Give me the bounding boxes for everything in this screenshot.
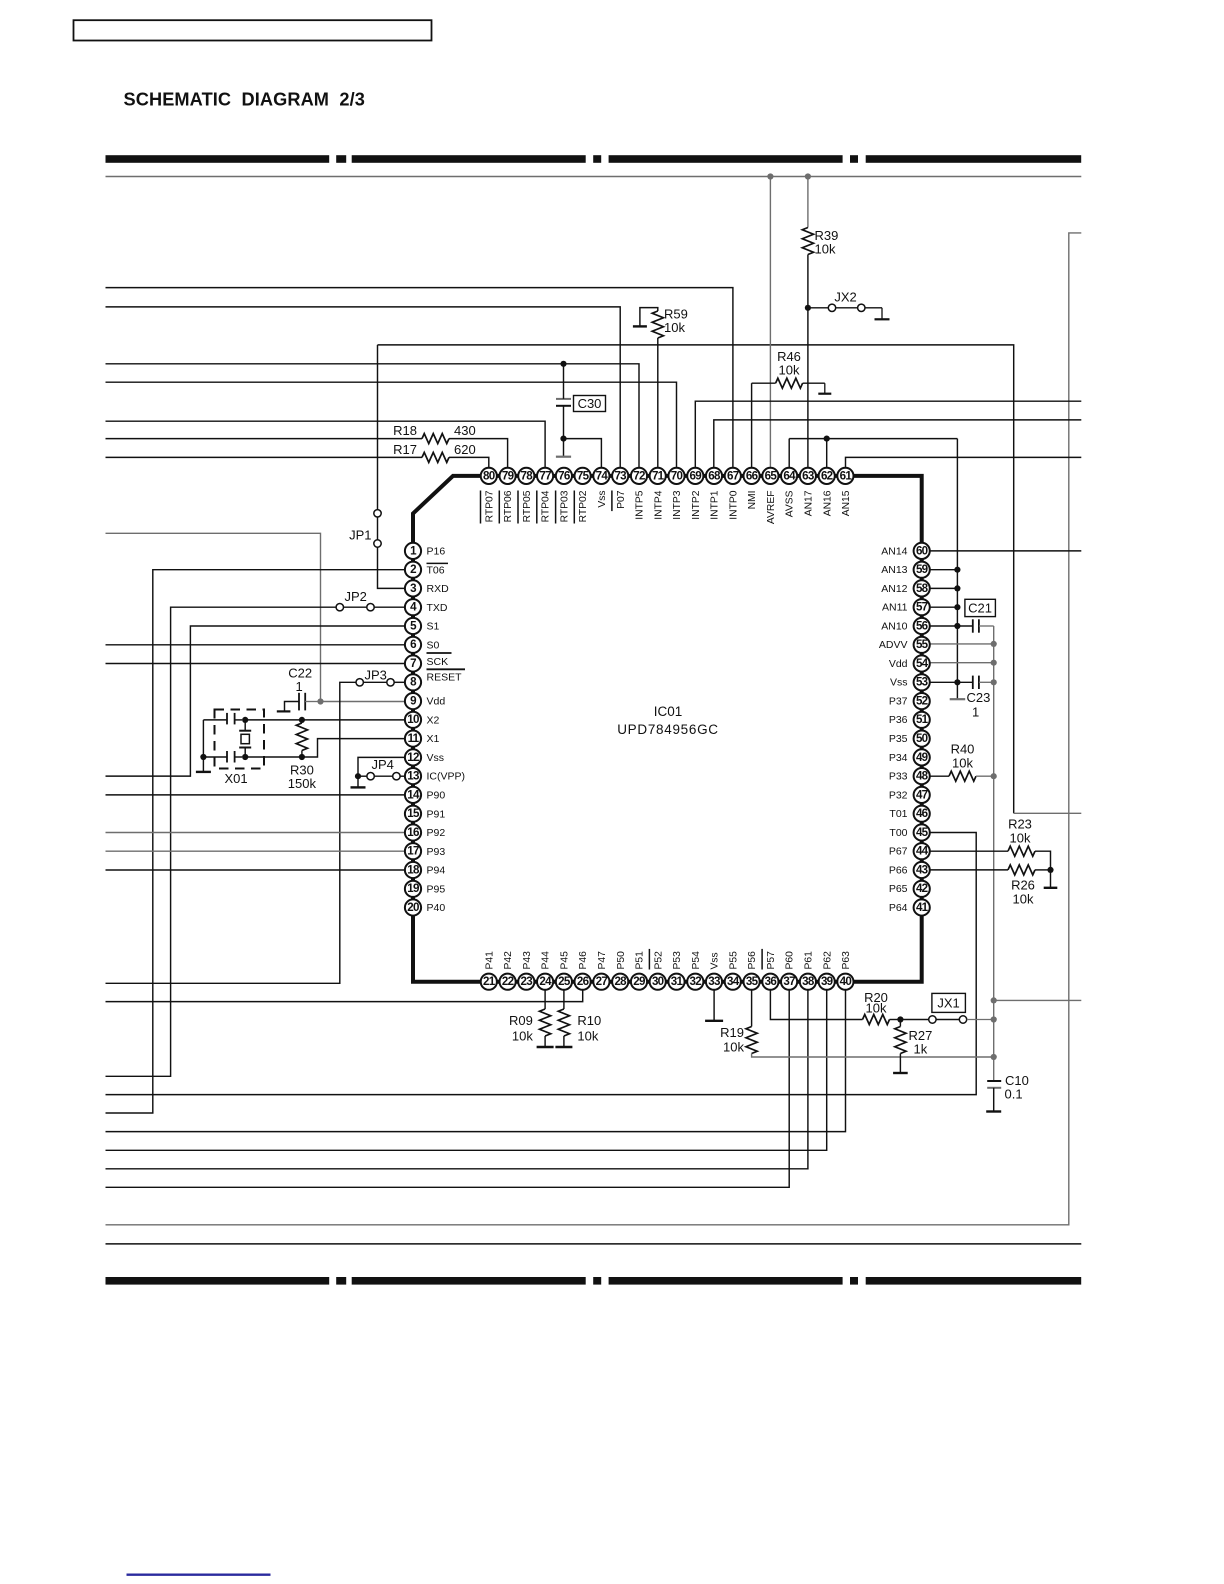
junction: AN16 tap on AVSS net	[824, 436, 830, 442]
svg-text:UPD784956GC: UPD784956GC	[617, 722, 719, 737]
pin 45 T00	[889, 824, 929, 840]
svg-text:47: 47	[916, 788, 928, 801]
junction: C30 bottom / Vss net	[560, 436, 566, 442]
svg-text:26: 26	[577, 975, 590, 988]
svg-text:10k: 10k	[779, 363, 800, 378]
junction: R40 on gray column	[991, 773, 997, 779]
svg-text:12: 12	[407, 751, 419, 764]
wire: R20 right lead	[890, 1019, 901, 1021]
pin 14 P90	[405, 787, 445, 803]
wire: P57 pin 36 lead to R20	[770, 991, 862, 1020]
ground bar for R59	[633, 325, 647, 327]
pin 58 AN12	[881, 580, 930, 596]
svg-text:P53: P53	[672, 951, 683, 970]
pin 65 AVREF	[762, 468, 778, 524]
wire: JP1 to pin 3 RXD	[378, 547, 405, 588]
svg-text:70: 70	[671, 469, 683, 482]
pin 49 P34	[889, 749, 930, 765]
svg-text:1: 1	[296, 679, 303, 694]
terminator bar for R09	[537, 1046, 554, 1048]
jumper JP2	[336, 604, 343, 611]
svg-text:T00: T00	[889, 827, 907, 839]
wire: R46 right lead to ground	[803, 382, 825, 384]
junction: AN13 on AVSS column	[954, 567, 960, 573]
svg-text:IC01: IC01	[654, 704, 683, 719]
svg-text:INTP0: INTP0	[728, 490, 739, 519]
pin 66 NMI	[744, 468, 760, 510]
crystal X01 dashed enclosure	[215, 710, 265, 769]
ground bar for R27	[893, 1072, 908, 1074]
svg-text:34: 34	[727, 975, 740, 988]
svg-text:79: 79	[502, 469, 515, 482]
wire: RTP04 net from left edge to pin 77	[106, 421, 546, 467]
wire: pin 24 lead to R09	[544, 991, 546, 1010]
svg-text:13: 13	[407, 770, 420, 783]
svg-text:RESET: RESET	[427, 672, 463, 684]
svg-text:P35: P35	[889, 733, 908, 745]
svg-text:10k: 10k	[1013, 892, 1034, 907]
pin 3 RXD	[405, 580, 449, 596]
pin 25 P45	[556, 951, 572, 990]
jumper JP4	[358, 775, 367, 777]
pin 21 P41	[481, 951, 497, 990]
svg-text:Vss: Vss	[427, 752, 445, 764]
svg-text:INTP5: INTP5	[635, 490, 646, 519]
svg-text:42: 42	[916, 882, 928, 895]
svg-text:68: 68	[708, 469, 721, 482]
svg-text:P37: P37	[889, 696, 908, 708]
ground stub below JP4 node	[357, 776, 359, 787]
wire: JP1 net from RXD riser top rail y=344.9 to right bus riser	[378, 345, 1014, 813]
svg-text:10k: 10k	[664, 320, 685, 335]
pin 16 P92	[405, 824, 445, 840]
svg-text:AN11: AN11	[882, 602, 908, 614]
pin 55 ADVV	[879, 637, 930, 653]
crystal element of X01	[244, 720, 246, 731]
wire: S1 net pin 5 loop to left edge	[106, 626, 405, 776]
svg-text:28: 28	[614, 975, 627, 988]
ground for R46	[824, 383, 826, 394]
svg-text:X1: X1	[427, 733, 440, 745]
svg-text:11: 11	[408, 732, 420, 745]
svg-text:S0: S0	[427, 639, 440, 651]
junction: Vss on AVSS column	[954, 679, 960, 685]
pin 57 AN11	[882, 599, 930, 615]
wire: C22 left lead to ground	[285, 702, 300, 711]
resistor R30	[301, 720, 303, 723]
pin 78 RTP05	[518, 468, 534, 524]
pin 30 P52	[649, 949, 665, 990]
svg-text:10k: 10k	[512, 1029, 533, 1044]
wire: AVREF gray riser from top rail to pin 65	[769, 177, 771, 468]
svg-text:R18: R18	[393, 423, 417, 438]
pin 50 P35	[889, 731, 930, 747]
wire: JP2 to pin 4 TXD	[374, 606, 404, 608]
svg-text:23: 23	[521, 975, 534, 988]
svg-text:P67: P67	[889, 846, 908, 858]
svg-text:P64: P64	[889, 902, 908, 914]
pin 34 P55	[725, 951, 741, 990]
ground stub below X01 left rail	[202, 757, 204, 771]
svg-text:P54: P54	[691, 951, 702, 970]
svg-text:P61: P61	[804, 951, 815, 970]
svg-text:P62: P62	[822, 951, 833, 970]
ground stub below R27	[899, 1054, 901, 1073]
svg-text:24: 24	[539, 975, 552, 988]
svg-text:P94: P94	[427, 865, 446, 877]
ground bar for X01	[196, 771, 211, 773]
wire: S0 net from left edge to pin 6	[106, 644, 405, 646]
svg-text:P66: P66	[889, 864, 908, 876]
pin 72 INTP5	[631, 468, 647, 520]
svg-text:1: 1	[972, 705, 979, 720]
svg-text:NMI: NMI	[747, 491, 758, 510]
pin 68 INTP1	[706, 468, 722, 520]
pin 51 P36	[889, 712, 930, 728]
wire: R18 to pin 79	[449, 439, 508, 468]
svg-text:21: 21	[483, 975, 496, 988]
svg-text:39: 39	[821, 975, 834, 988]
pin 40 P63	[837, 951, 853, 990]
wire: P46 net from left edge up to pin 26	[106, 991, 583, 1002]
svg-text:R10: R10	[577, 1013, 601, 1028]
wire: T00 net long loop from left edge to pin 45	[106, 833, 977, 1095]
wire: pin 35 lead to R19	[751, 991, 753, 1027]
junction: C30 top on INTP5 net	[560, 361, 566, 367]
svg-text:P95: P95	[427, 883, 446, 895]
resistor R23	[1008, 846, 1035, 856]
svg-text:RXD: RXD	[427, 583, 450, 595]
wire: P63 net from left edge up to pin 40	[106, 991, 846, 1132]
wire: crystal bottom to R30 bottom	[245, 756, 302, 758]
wire: INTP2 net pin 69 up and right to edge	[695, 401, 1081, 467]
pin 9 Vdd	[405, 693, 445, 709]
svg-text:76: 76	[558, 469, 571, 482]
pin 42 P65	[889, 881, 930, 897]
svg-text:71: 71	[652, 469, 665, 482]
svg-text:Vss: Vss	[890, 677, 908, 689]
wire: Vdd node to pin 9	[321, 701, 405, 703]
pin 64 AVSS	[781, 468, 797, 517]
svg-text:55: 55	[916, 638, 929, 651]
stub below R09	[544, 1036, 546, 1046]
wire: X2 net from crystal top to pin 10	[245, 719, 404, 721]
capacitor C30 lower plate	[556, 405, 571, 407]
resistor R26	[1008, 865, 1035, 875]
resistor R20	[863, 1015, 890, 1025]
ground stub below C30 node	[563, 439, 565, 457]
svg-text:T06: T06	[427, 564, 445, 576]
pin 71 INTP4	[650, 468, 666, 520]
wire: C22 right lead	[305, 701, 318, 703]
svg-text:JP1: JP1	[349, 528, 371, 543]
junction: R30 bottom node	[299, 754, 305, 760]
svg-text:10k: 10k	[723, 1040, 744, 1055]
svg-text:64: 64	[783, 469, 796, 482]
capacitor (upper) inside X01	[226, 713, 228, 725]
wire: R46 left lead	[752, 382, 776, 384]
svg-text:R40: R40	[951, 742, 975, 757]
svg-text:430: 430	[454, 423, 476, 438]
svg-text:P36: P36	[889, 714, 908, 726]
svg-text:33: 33	[708, 975, 721, 988]
svg-text:19: 19	[407, 882, 420, 895]
wire: top horizontal gray rail	[106, 176, 1082, 178]
pin 17 P93	[405, 843, 445, 859]
svg-text:16: 16	[407, 826, 420, 839]
wire: P62 net from left edge up to pin 39	[106, 991, 827, 1151]
pin 6 S0	[405, 637, 440, 653]
wire: P33 pin 48 lead to R40	[931, 775, 950, 777]
pin 38 P61	[800, 951, 816, 990]
pin 7 SCK	[405, 653, 452, 672]
svg-text:P65: P65	[889, 883, 908, 895]
svg-text:25: 25	[558, 975, 571, 988]
pin 52 P37	[889, 693, 930, 709]
pin 22 P42	[500, 951, 516, 990]
svg-text:T01: T01	[889, 808, 907, 820]
wire: INTP0 net from left edge to pin 67	[106, 288, 733, 468]
wire: RESET/JP3 left branch to left edge	[106, 682, 357, 983]
wire: X1 rail through lower cap	[203, 756, 227, 758]
svg-text:37: 37	[783, 975, 795, 988]
svg-text:18: 18	[407, 863, 420, 876]
svg-text:53: 53	[916, 676, 929, 689]
svg-text:P63: P63	[841, 951, 852, 970]
pin 28 P50	[612, 951, 628, 990]
capacitor C21 plates	[972, 619, 974, 632]
svg-text:10k: 10k	[815, 242, 836, 257]
svg-text:P51: P51	[635, 951, 646, 970]
wire: long gray net along bottom to right bus riser	[106, 233, 1082, 1225]
svg-text:C23: C23	[967, 690, 991, 705]
wire: C30 bottom lead to Vss node	[563, 406, 565, 439]
pin 11 X1	[405, 731, 440, 747]
terminator bar for C10	[986, 1110, 1001, 1112]
svg-text:59: 59	[916, 563, 929, 576]
svg-text:62: 62	[821, 469, 833, 482]
wire: P67 pin 44 lead to R23	[931, 850, 1009, 852]
svg-text:JX2: JX2	[834, 290, 856, 305]
svg-text:P56: P56	[747, 951, 758, 970]
svg-text:80: 80	[483, 469, 495, 482]
svg-text:35: 35	[746, 975, 759, 988]
junction: AN12 on AVSS column	[954, 585, 960, 591]
svg-text:R09: R09	[509, 1013, 533, 1028]
svg-text:45: 45	[916, 826, 929, 839]
svg-text:JX1: JX1	[937, 996, 959, 1011]
svg-text:P43: P43	[522, 951, 533, 970]
pin 54 Vdd	[889, 655, 930, 671]
svg-text:40: 40	[840, 975, 852, 988]
svg-text:38: 38	[802, 975, 815, 988]
wire: P92 net from left edge to pin 16	[106, 832, 405, 834]
svg-text:Vdd: Vdd	[889, 658, 908, 670]
resistor R19	[746, 1027, 757, 1054]
junction: crystal top node	[242, 717, 248, 723]
wire: SCK net from left edge to pin 7	[106, 663, 405, 665]
wire: R39 bottom to pin 63 AN17	[807, 255, 809, 468]
wire: Vss pin 12 to ground node	[358, 757, 405, 776]
svg-text:AN13: AN13	[881, 564, 907, 576]
wire: ADVV pin 55 to gray column	[931, 643, 994, 645]
pin 67 INTP0	[725, 468, 741, 520]
svg-text:77: 77	[539, 469, 551, 482]
svg-text:78: 78	[521, 469, 534, 482]
stub below R10	[563, 1036, 565, 1046]
wire: AVSS net pin 64 riser	[788, 439, 790, 468]
svg-text:P40: P40	[427, 902, 446, 914]
wire: AN11 pin 57 to AVSS column	[931, 606, 958, 608]
svg-text:P33: P33	[889, 771, 908, 783]
svg-text:P57: P57	[766, 951, 777, 970]
pin 75 RTP02	[574, 468, 590, 524]
wire: R59 top bend to ground	[640, 308, 658, 326]
svg-text:43: 43	[916, 863, 929, 876]
svg-text:17: 17	[407, 845, 419, 858]
svg-text:56: 56	[916, 619, 929, 632]
stub below C10	[993, 1088, 995, 1111]
resistor R46	[776, 378, 803, 388]
junction on gray rail to R39	[805, 173, 811, 179]
ground bar for pin 33	[705, 1020, 723, 1022]
svg-text:AVREF: AVREF	[766, 491, 777, 525]
wire: pin 25 lead to R10	[563, 991, 565, 1010]
wire: T06 net pin 2 loop to left edge	[106, 570, 405, 1113]
capacitor C30 upper plate	[556, 398, 571, 400]
svg-text:R26: R26	[1011, 878, 1035, 893]
wire: AVSS net horizontal	[789, 438, 957, 440]
wire: gray net row to right edge	[994, 999, 1082, 1001]
svg-text:10k: 10k	[1010, 831, 1031, 846]
svg-text:27: 27	[596, 975, 608, 988]
pin 79 RTP06	[499, 468, 515, 524]
top heavy dashed bus bar	[106, 155, 1082, 163]
svg-text:JP4: JP4	[372, 757, 394, 772]
pin 39 P62	[819, 951, 835, 990]
pin 37 P60	[781, 951, 797, 990]
resistor R27	[895, 1027, 906, 1054]
svg-text:RTP07: RTP07	[484, 490, 495, 522]
jumper JP3	[356, 679, 363, 686]
svg-text:51: 51	[916, 713, 929, 726]
svg-text:ADVV: ADVV	[879, 639, 908, 651]
svg-text:73: 73	[614, 469, 627, 482]
wire: P94 net from left edge to pin 18	[106, 869, 405, 871]
pin 18 P94	[405, 862, 445, 878]
svg-text:AN12: AN12	[881, 583, 907, 595]
wire: C30 top lead	[563, 364, 565, 399]
svg-text:54: 54	[916, 657, 929, 670]
ground stub below R23/R26 node	[1050, 870, 1052, 887]
pin 15 P91	[405, 806, 445, 822]
wire: gray decoupling column	[993, 626, 995, 1080]
pin 27 P47	[593, 951, 609, 990]
junction: R20/R27/JX1 node	[897, 1016, 903, 1022]
wire: AN12 pin 58 to AVSS column	[931, 587, 958, 589]
svg-text:66: 66	[746, 469, 759, 482]
wire: R26 right lead	[1035, 869, 1051, 871]
wire: C21 right lead to gray column	[979, 625, 994, 627]
svg-text:RTP06: RTP06	[503, 490, 514, 522]
resistor R17	[422, 452, 449, 462]
svg-text:44: 44	[916, 845, 929, 858]
svg-text:41: 41	[916, 901, 929, 914]
resistor R09	[540, 1009, 551, 1036]
svg-text:P91: P91	[427, 808, 446, 820]
svg-text:JP3: JP3	[365, 668, 387, 683]
junction: AN10 on AVSS column	[954, 623, 960, 629]
svg-text:P34: P34	[889, 752, 908, 764]
wire: P07 net from left edge to pin 73	[106, 307, 621, 467]
capacitor C10 top plate	[987, 1080, 1001, 1082]
wire: X2 rail from left rail through upper cap to crystal top	[203, 719, 227, 721]
svg-text:R17: R17	[393, 442, 417, 457]
pin 26 P46	[575, 951, 591, 990]
terminator bar for R10	[555, 1046, 572, 1048]
pin 32 P54	[687, 951, 703, 990]
svg-text:50: 50	[916, 732, 928, 745]
junction: JX2 tap on AN17 riser	[805, 305, 811, 311]
svg-text:61: 61	[840, 469, 853, 482]
svg-text:RTP02: RTP02	[578, 490, 589, 522]
wire: Vss pin 33 ground stub	[713, 991, 715, 1021]
junction: R23/R26 node	[1047, 867, 1053, 873]
wire: AVSS net drop on right column	[956, 439, 958, 699]
wire: TXD/JP2 left branch to left edge	[106, 607, 337, 1076]
pin 13 IC(VPP)	[405, 768, 465, 784]
svg-text:S1: S1	[427, 621, 440, 633]
junction: AN11 on AVSS column	[954, 604, 960, 610]
header box (empty title block)	[74, 20, 432, 40]
svg-text:P41: P41	[484, 951, 495, 970]
svg-text:RTP04: RTP04	[541, 490, 552, 522]
pin 19 P95	[405, 881, 445, 897]
svg-text:JP2: JP2	[345, 589, 367, 604]
wire: P61 net from left edge up to pin 38	[106, 991, 808, 1169]
pin 53 Vss	[890, 674, 930, 690]
svg-text:C30: C30	[578, 396, 602, 411]
resistor R18	[422, 434, 449, 444]
jumper JX2	[808, 307, 828, 309]
junction: C23 on gray column	[991, 679, 997, 685]
junction: C22 / Vdd node	[317, 698, 323, 704]
pin 47 P32	[889, 787, 930, 803]
junction: ADVV on gray column	[991, 641, 997, 647]
svg-text:SCK: SCK	[427, 656, 449, 668]
svg-text:75: 75	[577, 469, 590, 482]
pin 44 P67	[889, 843, 930, 859]
junction on gray rail to AVREF	[767, 173, 773, 179]
svg-text:49: 49	[916, 751, 929, 764]
svg-text:0.1: 0.1	[1005, 1087, 1023, 1102]
svg-text:AVSS: AVSS	[785, 490, 796, 517]
svg-text:10k: 10k	[952, 756, 973, 771]
wire: R39 top gray lead from rail	[807, 177, 809, 228]
svg-text:R19: R19	[720, 1025, 744, 1040]
svg-text:P32: P32	[889, 789, 908, 801]
pin 62 AN16	[819, 468, 835, 516]
capacitor C23 plates	[972, 676, 974, 689]
wire: R59 bottom to pin 71 INTP4	[657, 338, 659, 467]
wire: X1 net step up to pin 11	[302, 739, 405, 757]
label C21 boxed	[965, 599, 996, 616]
label JX1 boxed	[932, 993, 966, 1012]
svg-text:52: 52	[916, 695, 928, 708]
svg-text:IC(VPP): IC(VPP)	[427, 771, 466, 783]
wire: P60 net from left edge up to pin 37	[106, 991, 790, 1188]
pin 2 T06	[405, 562, 448, 578]
